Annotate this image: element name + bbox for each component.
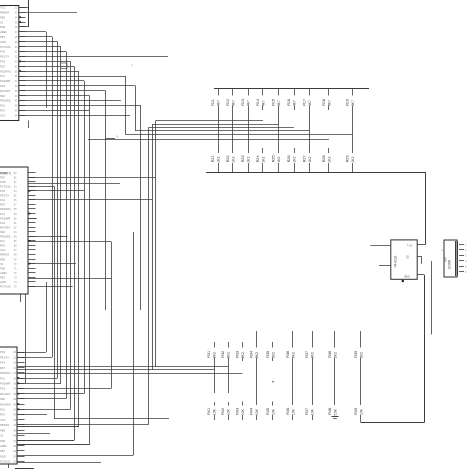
resistor R44 bottom lead bbox=[256, 415, 258, 420]
wire J1p2 net stub bbox=[19, 12, 77, 14]
svg-text:AREF: AREF bbox=[0, 271, 7, 275]
J2 pin 1 stub bbox=[28, 172, 36, 174]
J2 pin 20 stub bbox=[28, 259, 36, 261]
svg-text:01: 01 bbox=[410, 244, 413, 248]
resistor R33 mid stub a bbox=[242, 358, 244, 362]
svg-text:2K2: 2K2 bbox=[212, 352, 216, 358]
svg-text:PD0: PD0 bbox=[0, 25, 6, 29]
resistor R21 bottom lead bbox=[218, 163, 220, 172]
resistor R11 mid lead bbox=[218, 106, 220, 154]
J2 pin dot bbox=[29, 213, 31, 215]
J1 pin 20 stub bbox=[19, 100, 26, 102]
svg-text:10K: 10K bbox=[241, 408, 245, 415]
svg-text:PB4/SS: PB4/SS bbox=[0, 253, 9, 257]
svg-text:10K: 10K bbox=[333, 408, 337, 415]
svg-text:PG2: PG2 bbox=[0, 84, 6, 88]
U5 right pin 3 stub bbox=[417, 274, 424, 276]
svg-text:GND: GND bbox=[0, 280, 6, 284]
J3 pin 2 stub bbox=[17, 357, 25, 359]
J1 pin 7 stub bbox=[19, 36, 26, 38]
svg-text:PB7: PB7 bbox=[0, 35, 5, 39]
svg-text:PE6: PE6 bbox=[0, 94, 5, 98]
wire J3 pin h1 bbox=[17, 378, 58, 380]
U5 gnd tab bbox=[402, 280, 404, 282]
J3 pin 9 stub bbox=[17, 393, 25, 395]
wire bus v8 bbox=[89, 96, 91, 445]
svg-text:PC7/A15: PC7/A15 bbox=[0, 184, 11, 188]
wire J1 pin h7 bbox=[19, 80, 84, 82]
J1 pin 18 stub bbox=[19, 90, 26, 92]
svg-text:PB5: PB5 bbox=[0, 15, 5, 19]
svg-text:1K2: 1K2 bbox=[327, 157, 331, 163]
wire J1 long y56 bbox=[19, 56, 168, 58]
J1 pin 15 stub bbox=[19, 76, 26, 78]
wire v x54 bbox=[54, 186, 56, 418]
wire stair 1 bbox=[156, 120, 264, 122]
wire bus v1 bbox=[57, 42, 59, 378]
wire J3 to col2 bbox=[17, 366, 228, 368]
wire stair 5 bbox=[125, 134, 352, 136]
svg-text:10K: 10K bbox=[310, 408, 314, 415]
J4 pin 4 bbox=[459, 260, 464, 262]
J3 pin 14 stub bbox=[17, 419, 25, 421]
ground col8 bar1 bbox=[332, 416, 339, 418]
svg-text:PC6: PC6 bbox=[0, 50, 6, 54]
svg-text:PB5: PB5 bbox=[0, 257, 5, 261]
J4 pin 6 bbox=[459, 271, 464, 273]
J3 pin dot bbox=[18, 393, 20, 395]
svg-text:1K2: 1K2 bbox=[308, 157, 312, 163]
J2 pin 14 stub bbox=[28, 231, 36, 233]
svg-text:PC7/A15: PC7/A15 bbox=[0, 460, 11, 464]
svg-text:R13: R13 bbox=[241, 99, 245, 106]
svg-text:PG0/WR: PG0/WR bbox=[0, 79, 10, 83]
J2 pin 5 stub bbox=[28, 190, 36, 192]
wire bus v7 bbox=[84, 81, 86, 394]
J3 pin 21 stub bbox=[17, 456, 25, 458]
wire J1 pin h6 bbox=[19, 71, 79, 73]
wire bus v3 bbox=[66, 52, 68, 399]
resistor R31 top lead bbox=[214, 342, 216, 348]
resistor R19 top lead bbox=[352, 89, 354, 96]
svg-text:PB7: PB7 bbox=[0, 275, 5, 279]
J3 ground stub bbox=[8, 464, 10, 468]
J1 pin 6 stub bbox=[19, 31, 26, 33]
svg-text:PA3: PA3 bbox=[0, 413, 5, 417]
svg-text:R49: R49 bbox=[354, 408, 358, 415]
resistor R33 mid stub b bbox=[242, 402, 244, 406]
svg-text:VCC: VCC bbox=[0, 113, 6, 117]
J1 pin 4 stub bbox=[19, 22, 26, 24]
svg-text:1K2: 1K2 bbox=[292, 157, 296, 163]
wire v x140.9 bbox=[140, 105, 142, 310]
J1 pin dot bbox=[19, 21, 21, 23]
svg-text:2K2: 2K2 bbox=[310, 352, 314, 358]
svg-text:PC6: PC6 bbox=[0, 189, 6, 193]
resistor R13 mid lead bbox=[248, 106, 250, 154]
resistor R49 bottom lead bbox=[360, 415, 362, 423]
J1 pin 8 stub bbox=[19, 41, 26, 43]
svg-text:PA3: PA3 bbox=[0, 244, 5, 248]
wire J3 y427 bbox=[17, 426, 79, 428]
svg-text:2K2: 2K2 bbox=[359, 352, 363, 358]
wire J2 h2 bbox=[28, 190, 84, 192]
resistor R46 bottom lead bbox=[292, 415, 294, 420]
resistor R17 top lead bbox=[309, 89, 311, 96]
wire stair 4 bbox=[135, 130, 309, 132]
resistor R13 top lead bbox=[248, 89, 250, 96]
wire J1 pin h0 bbox=[19, 36, 52, 38]
J1 pin 10 stub bbox=[19, 51, 26, 53]
top array GND rail bbox=[206, 172, 426, 174]
svg-text:1K2: 1K2 bbox=[351, 157, 355, 163]
svg-text:PG0/WR: PG0/WR bbox=[0, 381, 10, 385]
J3 pin 18 stub bbox=[17, 440, 25, 442]
svg-text:PC4: PC4 bbox=[0, 361, 6, 365]
svg-text:PA7/AD7: PA7/AD7 bbox=[0, 225, 11, 229]
wire J1 to x140 bbox=[19, 105, 141, 107]
svg-text:U5: U5 bbox=[406, 255, 410, 259]
resistor R16 top lead bbox=[294, 89, 296, 96]
wire v x148.3 bbox=[148, 128, 150, 425]
resistor R41 bottom lead bbox=[214, 415, 216, 420]
J3 pin 11 stub bbox=[17, 404, 25, 406]
wire bus v0 bbox=[52, 37, 54, 357]
J3 pin dot bbox=[18, 403, 20, 405]
J1 pin dot bbox=[19, 70, 21, 72]
svg-text:R21: R21 bbox=[211, 155, 215, 162]
svg-text:PE6: PE6 bbox=[0, 397, 5, 401]
resistor R12 top lead bbox=[232, 89, 234, 96]
svg-text:PA5/AD5: PA5/AD5 bbox=[0, 235, 11, 239]
svg-text:PG2: PG2 bbox=[0, 221, 6, 225]
J2 pin 23 stub bbox=[28, 272, 36, 274]
J3 pin dot bbox=[18, 408, 20, 410]
J2 pin 9 stub bbox=[28, 208, 36, 210]
J2 pin 25 stub bbox=[28, 281, 36, 283]
wire J3 to x148 bbox=[17, 424, 148, 426]
wire J2 h3 bbox=[28, 199, 152, 201]
J2 pin 8 stub bbox=[28, 204, 36, 206]
J1 pin 2 stub bbox=[19, 12, 26, 14]
svg-text:1K2: 1K2 bbox=[231, 157, 235, 163]
J4 inner bar bbox=[455, 241, 457, 276]
wire J1 long y100 bbox=[19, 100, 121, 102]
svg-text:PA3: PA3 bbox=[0, 109, 5, 113]
J2 pin 17 stub bbox=[28, 245, 36, 247]
svg-text:R35: R35 bbox=[266, 351, 270, 358]
connector J1 bbox=[0, 6, 19, 121]
J1 pin 16 stub bbox=[19, 80, 26, 82]
resistor R37 mid lead bbox=[312, 358, 314, 406]
wire J2 h4 bbox=[28, 218, 37, 220]
svg-text:R32: R32 bbox=[221, 351, 225, 358]
J1 pin 23 stub bbox=[19, 115, 26, 117]
svg-text:PC1: PC1 bbox=[0, 376, 6, 380]
svg-text:R18: R18 bbox=[322, 99, 326, 106]
resistor R33 top lead bbox=[242, 342, 244, 348]
svg-text:2K2: 2K2 bbox=[333, 352, 337, 358]
svg-text:PD0: PD0 bbox=[0, 439, 6, 443]
ground col8 bar2 bbox=[333, 418, 337, 420]
wire J1 to x135 bbox=[19, 85, 136, 87]
svg-text:CON6: CON6 bbox=[448, 260, 452, 269]
svg-text:PC6: PC6 bbox=[0, 350, 6, 354]
svg-text:VCC: VCC bbox=[0, 6, 6, 10]
svg-text:GND: GND bbox=[0, 180, 6, 184]
J4 pin 1 bbox=[459, 244, 464, 246]
svg-text:R12: R12 bbox=[226, 99, 230, 106]
wire v x46 upper bbox=[46, 32, 48, 108]
svg-text:PE1/TX: PE1/TX bbox=[0, 194, 9, 198]
svg-text:R45: R45 bbox=[266, 408, 270, 415]
svg-text:A: A bbox=[131, 63, 133, 67]
svg-text:R17: R17 bbox=[303, 99, 307, 106]
wire bus v6 bbox=[78, 71, 80, 427]
svg-text:R16: R16 bbox=[287, 99, 291, 106]
svg-text:PA7/AD7: PA7/AD7 bbox=[0, 392, 11, 396]
svg-text:PE6: PE6 bbox=[0, 230, 5, 234]
resistor R11 top lead bbox=[218, 89, 220, 96]
svg-text:10K: 10K bbox=[255, 408, 259, 415]
J3 pin 22 stub bbox=[17, 461, 25, 463]
svg-text:1K2: 1K2 bbox=[246, 157, 250, 163]
J2 pin 16 stub bbox=[28, 240, 36, 242]
svg-text:PORTC: PORTC bbox=[0, 172, 12, 176]
J2 pin 10 stub bbox=[28, 213, 36, 215]
resistor R32 mid lead part bbox=[228, 358, 230, 394]
wire J3 pin h0 bbox=[17, 357, 52, 359]
svg-text:R29: R29 bbox=[346, 155, 350, 162]
U5 left pin 1 wire bbox=[370, 245, 391, 247]
resistor R16 mid stub a bbox=[294, 106, 296, 111]
wire J3 y440 bbox=[17, 440, 74, 442]
wire v x133.4 bbox=[133, 232, 135, 455]
wire J2 to x54 bbox=[28, 186, 54, 188]
svg-text:4K7: 4K7 bbox=[327, 100, 331, 106]
J2 pin 7 stub bbox=[28, 199, 36, 201]
svg-text:PD0: PD0 bbox=[0, 266, 6, 270]
wire J3 pin h7 bbox=[17, 393, 84, 395]
svg-text:2K2: 2K2 bbox=[255, 352, 259, 358]
svg-text:PB5: PB5 bbox=[0, 428, 5, 432]
resistor R48 bottom lead bbox=[334, 414, 336, 417]
wire J3 y455 long bbox=[17, 455, 133, 457]
svg-text:4K7: 4K7 bbox=[216, 100, 220, 106]
wire J2 h1 bbox=[28, 183, 120, 185]
resistor R31 mid lead part bbox=[214, 358, 216, 394]
resistor R17 mid lead bbox=[309, 106, 311, 154]
svg-text:R27: R27 bbox=[303, 155, 307, 162]
J1 pin 5 stub bbox=[19, 26, 26, 28]
J3 pin 3 stub bbox=[17, 362, 25, 364]
J4 pin 5 bbox=[459, 266, 464, 268]
resistor R35 top lead bbox=[272, 342, 274, 348]
svg-text:PC1: PC1 bbox=[0, 74, 6, 78]
J2 pin 6 stub bbox=[28, 195, 36, 197]
resistor R23 bottom lead bbox=[248, 163, 250, 172]
svg-text:1K2: 1K2 bbox=[277, 157, 281, 163]
wire U5 side drop to net bbox=[431, 261, 433, 335]
wire J1 pin h1 bbox=[19, 41, 58, 43]
J1 pin 1 stub bbox=[19, 7, 26, 9]
connector J3 bbox=[0, 347, 17, 464]
svg-text:R14: R14 bbox=[256, 99, 260, 106]
svg-text:PL4: PL4 bbox=[0, 239, 5, 243]
wire v x105.5 bbox=[105, 91, 107, 310]
J3 pin 12 stub bbox=[17, 409, 25, 411]
svg-text:R36: R36 bbox=[286, 351, 290, 358]
svg-text:PG0/WR: PG0/WR bbox=[0, 216, 10, 220]
wire hidden bbox=[417, 260, 431, 262]
svg-text:X2: X2 bbox=[0, 20, 4, 24]
svg-text:2K2: 2K2 bbox=[271, 352, 275, 358]
wire J3 y414 bbox=[17, 414, 47, 416]
svg-text:PL4: PL4 bbox=[0, 408, 5, 412]
J3 pin 16 stub bbox=[17, 430, 25, 432]
wire J2 h6 bbox=[28, 241, 111, 243]
J3 pin 4 stub bbox=[17, 367, 25, 369]
wire v x46 lower bbox=[46, 282, 48, 352]
wire J1 pin h2 bbox=[19, 46, 61, 48]
resistor R38 top lead bbox=[334, 331, 336, 348]
wire J1 y115 bbox=[19, 115, 130, 117]
svg-text:10K: 10K bbox=[359, 408, 363, 415]
wire right riser up to U5 bbox=[424, 275, 426, 423]
svg-text:PC7/A15: PC7/A15 bbox=[0, 285, 11, 289]
wire col9 to right riser bbox=[361, 422, 424, 424]
wire J1 pin h4 bbox=[19, 61, 71, 63]
svg-text:R42: R42 bbox=[221, 408, 225, 415]
J1 pin dot bbox=[19, 16, 21, 18]
svg-text:AREF: AREF bbox=[0, 30, 7, 34]
wire v x28.9 top exit bbox=[28, 0, 30, 27]
wire J1p1 bbox=[19, 7, 29, 9]
resistor R16 mid stub b bbox=[294, 148, 296, 153]
J1 pin 3 stub bbox=[19, 17, 26, 19]
svg-text:4K7: 4K7 bbox=[277, 100, 281, 106]
J1 pin 21 stub bbox=[19, 105, 26, 107]
J3 pin 15 stub bbox=[17, 424, 25, 426]
resistor R28 bottom lead bbox=[328, 163, 330, 172]
svg-text:R48: R48 bbox=[328, 408, 332, 415]
resistor R43 bottom lead bbox=[242, 415, 244, 420]
junction speck col5 bbox=[272, 381, 273, 382]
svg-text:PD2/RX1: PD2/RX1 bbox=[0, 69, 11, 73]
svg-text:1K2: 1K2 bbox=[261, 157, 265, 163]
svg-text:R22: R22 bbox=[226, 155, 230, 162]
wire stair 2 bbox=[152, 124, 279, 126]
svg-text:10K: 10K bbox=[291, 408, 295, 415]
wire J3 y444 bbox=[17, 444, 90, 446]
J1 pin 17 stub bbox=[19, 85, 26, 87]
svg-text:R47: R47 bbox=[305, 408, 309, 415]
J2 pin 15 stub bbox=[28, 236, 36, 238]
svg-text:PE1/TX: PE1/TX bbox=[0, 55, 9, 59]
J1 pin 9 stub bbox=[19, 46, 26, 48]
svg-text:PC1: PC1 bbox=[0, 212, 6, 216]
J3 pin 10 stub bbox=[17, 398, 25, 400]
wire bus v2 bbox=[60, 47, 62, 384]
J2 pin 22 stub bbox=[28, 268, 36, 270]
J3 pin 1 stub bbox=[17, 352, 25, 354]
svg-text:RST: RST bbox=[0, 64, 6, 68]
wire rail drop right bbox=[425, 172, 427, 245]
svg-text:GND: GND bbox=[0, 40, 6, 44]
resistor R32 mid stub bbox=[228, 402, 230, 406]
resistor R37 top lead bbox=[312, 331, 314, 348]
svg-text:RST: RST bbox=[0, 366, 6, 370]
svg-text:4K7: 4K7 bbox=[261, 100, 265, 106]
resistor R18 mid stub b bbox=[328, 148, 330, 153]
J2 pin 12 stub bbox=[28, 222, 36, 224]
svg-text:GND: GND bbox=[0, 454, 6, 458]
wire J3 pin h6 bbox=[17, 426, 79, 428]
svg-text:PL4: PL4 bbox=[0, 104, 5, 108]
svg-text:74HC1G: 74HC1G bbox=[394, 255, 398, 268]
resistor R14 mid stub b bbox=[262, 148, 264, 153]
svg-text:PA5/AD5: PA5/AD5 bbox=[0, 402, 11, 406]
J4 pin 2 bbox=[459, 249, 464, 251]
J3 pin 17 stub bbox=[17, 435, 25, 437]
wire v x155.5 bbox=[155, 121, 157, 367]
resistor R14 top lead bbox=[262, 89, 264, 96]
J3 pin 6 stub bbox=[17, 378, 25, 380]
svg-text:R15: R15 bbox=[272, 99, 276, 106]
svg-text:R43: R43 bbox=[236, 408, 240, 415]
resistor R18 mid stub a bbox=[328, 106, 330, 111]
resistor R39 mid lead bbox=[360, 358, 362, 406]
svg-text:RST: RST bbox=[0, 203, 6, 207]
wire J1 pin y31 bbox=[19, 31, 46, 33]
J3 pin 13 stub bbox=[17, 414, 25, 416]
svg-text:PC4: PC4 bbox=[0, 198, 6, 202]
wire J1 pin h5 bbox=[19, 66, 74, 68]
svg-text:10K: 10K bbox=[226, 408, 230, 415]
svg-text:R39: R39 bbox=[354, 351, 358, 358]
resistor R18 top lead bbox=[328, 89, 330, 96]
svg-text:PD2/RX1: PD2/RX1 bbox=[0, 207, 11, 211]
connector J2 bbox=[0, 167, 28, 294]
svg-text:R25: R25 bbox=[272, 155, 276, 162]
wire below J1 bbox=[28, 121, 30, 129]
svg-text:1K2: 1K2 bbox=[216, 157, 220, 163]
svg-text:R46: R46 bbox=[286, 408, 290, 415]
svg-text:R37: R37 bbox=[305, 351, 309, 358]
J1 pin 22 stub bbox=[19, 110, 26, 112]
wire J3 y433 bbox=[17, 433, 50, 435]
resistor R22 bottom lead bbox=[232, 163, 234, 172]
resistor R35 mid stub b bbox=[272, 402, 274, 406]
resistor R27 bottom lead bbox=[309, 163, 311, 172]
resistor R38 mid lead bbox=[334, 358, 336, 406]
J3 pin 5 stub bbox=[17, 372, 25, 374]
wire tick y138 bbox=[106, 138, 116, 140]
wire J3 y462 bbox=[17, 462, 101, 464]
svg-text:2K2: 2K2 bbox=[226, 352, 230, 358]
svg-text:PD2/RX1: PD2/RX1 bbox=[0, 371, 11, 375]
svg-text:ISP: ISP bbox=[444, 257, 448, 262]
J1 pin 19 stub bbox=[19, 95, 26, 97]
J1 pin dot bbox=[19, 60, 21, 62]
resistor R35 mid stub a bbox=[272, 358, 274, 362]
J3 pin 8 stub bbox=[17, 388, 25, 390]
svg-text:R44: R44 bbox=[250, 408, 254, 415]
connector J4 body bbox=[444, 240, 457, 277]
wire stair 3 bbox=[148, 127, 294, 129]
svg-text:PB7: PB7 bbox=[0, 449, 5, 453]
svg-text:PB4/SS: PB4/SS bbox=[0, 11, 9, 15]
